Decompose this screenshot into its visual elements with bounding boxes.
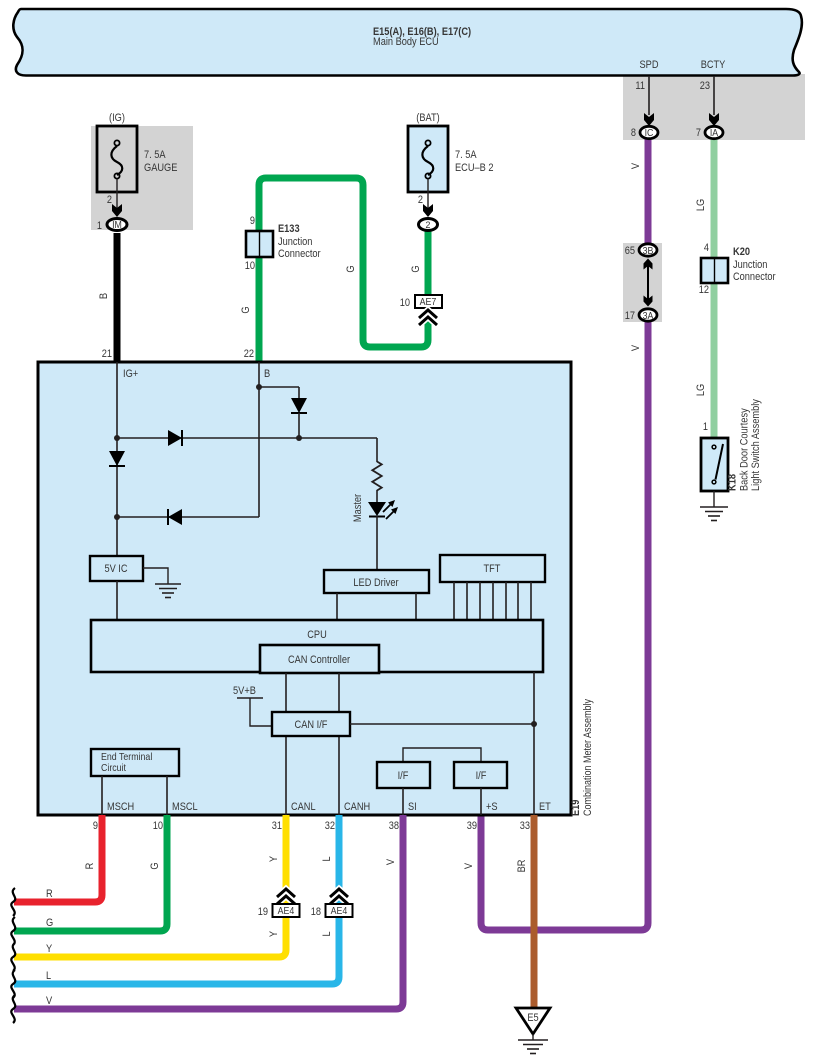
svg-text:I/F: I/F: [398, 770, 409, 782]
svg-text:MSCH: MSCH: [107, 801, 134, 813]
svg-text:12: 12: [699, 284, 709, 296]
frame marker AE7 pin 10: [400, 295, 442, 325]
svg-text:ECU–B 2: ECU–B 2: [455, 162, 494, 174]
svg-text:Y: Y: [268, 930, 280, 937]
Combination Meter Assembly box E19: [38, 362, 571, 815]
pin 23 lead from banner: [700, 76, 719, 126]
svg-text:Junction: Junction: [278, 236, 312, 248]
CAN bus verticals: [286, 673, 339, 815]
svg-text:R: R: [46, 888, 53, 900]
CAN I/F block: [272, 712, 350, 736]
resistor R1: [372, 438, 381, 491]
gray block behind SPD/BCTY pins: [623, 74, 805, 140]
switch K18 Back Door Courtesy Light Switch Assembly: [701, 399, 762, 491]
connector oval IM pin 1: [97, 219, 127, 233]
svg-text:9: 9: [250, 215, 255, 227]
svg-text:L: L: [321, 931, 333, 936]
svg-text:(IG): (IG): [109, 112, 125, 124]
svg-text:Connector: Connector: [733, 271, 776, 283]
frame marker AE4 pin 18 on CANH: [311, 889, 353, 937]
svg-text:V: V: [630, 162, 642, 169]
5V+B supply tap: [233, 685, 272, 726]
double arrow between 3B and 3A: [644, 259, 653, 307]
gray block behind IG fuse: [91, 126, 193, 230]
svg-text:BCTY: BCTY: [701, 59, 726, 71]
svg-text:21: 21: [102, 348, 112, 360]
svg-text:IG+: IG+: [123, 368, 138, 380]
svg-text:I/F: I/F: [476, 770, 487, 782]
svg-text:18: 18: [311, 906, 321, 918]
svg-text:E133: E133: [278, 223, 300, 235]
left edge break squiggle G: [11, 917, 15, 945]
svg-text:2: 2: [426, 220, 431, 231]
svg-text:2: 2: [418, 194, 423, 206]
svg-text:AE4: AE4: [278, 905, 295, 917]
svg-text:G: G: [410, 265, 422, 272]
svg-text:Main Body ECU: Main Body ECU: [373, 36, 439, 48]
svg-text:SI: SI: [408, 801, 417, 813]
svg-text:+S: +S: [486, 801, 498, 813]
svg-text:CANL: CANL: [291, 801, 316, 813]
wire black B from IM to pin 21: [114, 233, 121, 362]
svg-text:32: 32: [325, 820, 335, 832]
svg-text:V: V: [46, 995, 53, 1007]
ground at 5V IC: [143, 568, 181, 598]
svg-text:5V IC: 5V IC: [104, 563, 127, 575]
CAN I/F to ET rail: [350, 672, 537, 815]
svg-text:1: 1: [703, 421, 708, 433]
svg-text:CAN I/F: CAN I/F: [295, 719, 328, 731]
End Terminal Circuit block: [91, 749, 179, 815]
svg-text:7: 7: [696, 127, 701, 139]
svg-text:31: 31: [272, 820, 282, 832]
svg-text:G: G: [345, 265, 357, 272]
ground below K18: [700, 491, 728, 521]
svg-text:LG: LG: [695, 384, 707, 396]
svg-text:23: 23: [700, 80, 710, 92]
connector oval IC pin 8: [631, 126, 658, 139]
svg-text:19: 19: [258, 906, 268, 918]
svg-text:7. 5A: 7. 5A: [144, 149, 166, 161]
fuse IG 7.5A GAUGE: [97, 112, 177, 192]
svg-text:CAN Controller: CAN Controller: [288, 654, 350, 666]
svg-text:(BAT): (BAT): [416, 112, 439, 124]
svg-text:MSCL: MSCL: [172, 801, 198, 813]
TFT block: [440, 555, 545, 620]
svg-text:1: 1: [97, 220, 102, 232]
wire yellow Y from CANL: [14, 815, 286, 957]
wire green G from MSCL: [14, 815, 167, 931]
ground E5: [516, 1008, 550, 1054]
svg-text:CANH: CANH: [344, 801, 370, 813]
svg-text:IC: IC: [645, 127, 654, 139]
left edge break squiggle L: [11, 970, 15, 998]
svg-text:V: V: [385, 858, 397, 865]
svg-text:Back Door Courtesy: Back Door Courtesy: [739, 408, 751, 491]
svg-text:10: 10: [153, 820, 163, 832]
pin 11 lead from banner: [635, 76, 654, 126]
CAN Controller block: [260, 645, 379, 673]
horizontal wire labels at left: [46, 888, 53, 1007]
wire light green LG from IA to K18: [711, 135, 718, 438]
Main Body ECU banner: [13, 9, 802, 76]
internal node: B rail: [256, 362, 262, 517]
svg-text:G: G: [149, 862, 161, 869]
svg-text:3A: 3A: [643, 310, 654, 322]
svg-text:V: V: [630, 344, 642, 351]
svg-text:SPD: SPD: [640, 59, 659, 71]
pin 2 lead of BAT fuse: [418, 179, 433, 217]
svg-text:38: 38: [389, 820, 399, 832]
connector oval 2: [419, 219, 438, 232]
svg-text:AE4: AE4: [331, 905, 348, 917]
svg-text:K18: K18: [727, 474, 739, 491]
connector oval 3B pin 65: [625, 244, 657, 257]
svg-text:B: B: [98, 293, 110, 299]
CPU block: [91, 620, 543, 672]
svg-text:3B: 3B: [643, 245, 654, 257]
svg-text:E19: E19: [570, 800, 582, 816]
diode D1 down on IG+ rail: [109, 451, 125, 466]
junction connector E133: [245, 215, 321, 272]
wire red R from MSCH: [14, 815, 102, 902]
LED Driver block: [324, 570, 429, 620]
I/F block left: [377, 748, 481, 815]
wire purple V from SI: [14, 815, 403, 1009]
diode D2 down from B branch: [291, 387, 307, 441]
left edge break squiggle R: [11, 888, 15, 916]
frame marker AE4 pin 19 on CANL: [258, 889, 300, 937]
svg-text:Y: Y: [268, 855, 280, 862]
svg-text:4: 4: [704, 242, 709, 254]
svg-text:LED Driver: LED Driver: [353, 577, 398, 589]
wire brown BR from ET: [531, 815, 538, 1008]
junction connector K20: [699, 242, 776, 296]
bottom pin labels inside box: [107, 801, 551, 813]
svg-text:7. 5A: 7. 5A: [455, 149, 477, 161]
svg-text:IM: IM: [112, 220, 122, 231]
wire purple V from IC to +S: [481, 135, 648, 930]
svg-text:Circuit: Circuit: [101, 762, 126, 774]
horizontal rail y=517 with diode D4 left: [117, 509, 259, 525]
svg-text:GAUGE: GAUGE: [144, 162, 177, 174]
svg-text:10: 10: [400, 297, 410, 309]
svg-text:IA: IA: [710, 127, 718, 139]
wire cyan L from CANH: [14, 815, 339, 984]
wire green G loop from oval 2 to pin 22: [259, 178, 428, 363]
internal node: IG+ rail: [114, 362, 120, 556]
bottom pin numbers: [93, 820, 530, 832]
left edge break squiggle V: [11, 995, 15, 1023]
svg-text:17: 17: [625, 310, 635, 322]
svg-text:22: 22: [244, 348, 254, 360]
gray block behind 3B/3A connectors: [623, 243, 662, 322]
svg-text:Master: Master: [352, 494, 364, 522]
svg-text:8: 8: [631, 127, 636, 139]
svg-text:Combination Meter Assembly: Combination Meter Assembly: [582, 699, 594, 816]
branch B to down diode: [259, 386, 299, 388]
svg-text:V: V: [463, 862, 475, 869]
svg-text:65: 65: [625, 245, 635, 257]
svg-text:11: 11: [635, 80, 645, 92]
svg-text:L: L: [321, 856, 333, 861]
svg-text:Connector: Connector: [278, 248, 321, 260]
svg-text:Light Switch Assembly: Light Switch Assembly: [750, 399, 762, 491]
pin 2 lead of IG fuse: [107, 179, 122, 217]
svg-text:LG: LG: [695, 199, 707, 211]
svg-text:33: 33: [520, 820, 530, 832]
svg-text:9: 9: [93, 820, 98, 832]
5V IC block: [90, 556, 143, 620]
connector oval IA pin 7: [696, 126, 723, 139]
svg-text:G: G: [240, 306, 252, 313]
svg-text:2: 2: [107, 194, 112, 206]
svg-text:G: G: [46, 917, 53, 929]
I/F block right: [454, 762, 507, 815]
wire labels below box: [84, 855, 528, 872]
svg-text:L: L: [46, 970, 51, 982]
connector oval 3A pin 17: [625, 309, 657, 322]
fuse BAT 7.5A ECU-B 2: [408, 112, 494, 192]
svg-text:R: R: [84, 863, 96, 870]
svg-text:ET: ET: [539, 801, 551, 813]
horizontal rail y=438 with diode D3 right: [117, 430, 377, 446]
svg-text:10: 10: [245, 260, 255, 272]
svg-text:Y: Y: [46, 943, 53, 955]
svg-text:39: 39: [467, 820, 477, 832]
LED Master: [352, 490, 398, 570]
svg-text:BR: BR: [516, 860, 528, 873]
svg-text:Junction: Junction: [733, 259, 767, 271]
left edge break squiggle Y: [11, 943, 15, 971]
svg-text:TFT: TFT: [484, 563, 501, 575]
svg-text:CPU: CPU: [307, 629, 327, 641]
svg-text:B: B: [264, 368, 270, 380]
svg-text:E5: E5: [527, 1012, 538, 1024]
svg-text:5V+B: 5V+B: [233, 685, 256, 697]
svg-text:K20: K20: [733, 246, 750, 258]
